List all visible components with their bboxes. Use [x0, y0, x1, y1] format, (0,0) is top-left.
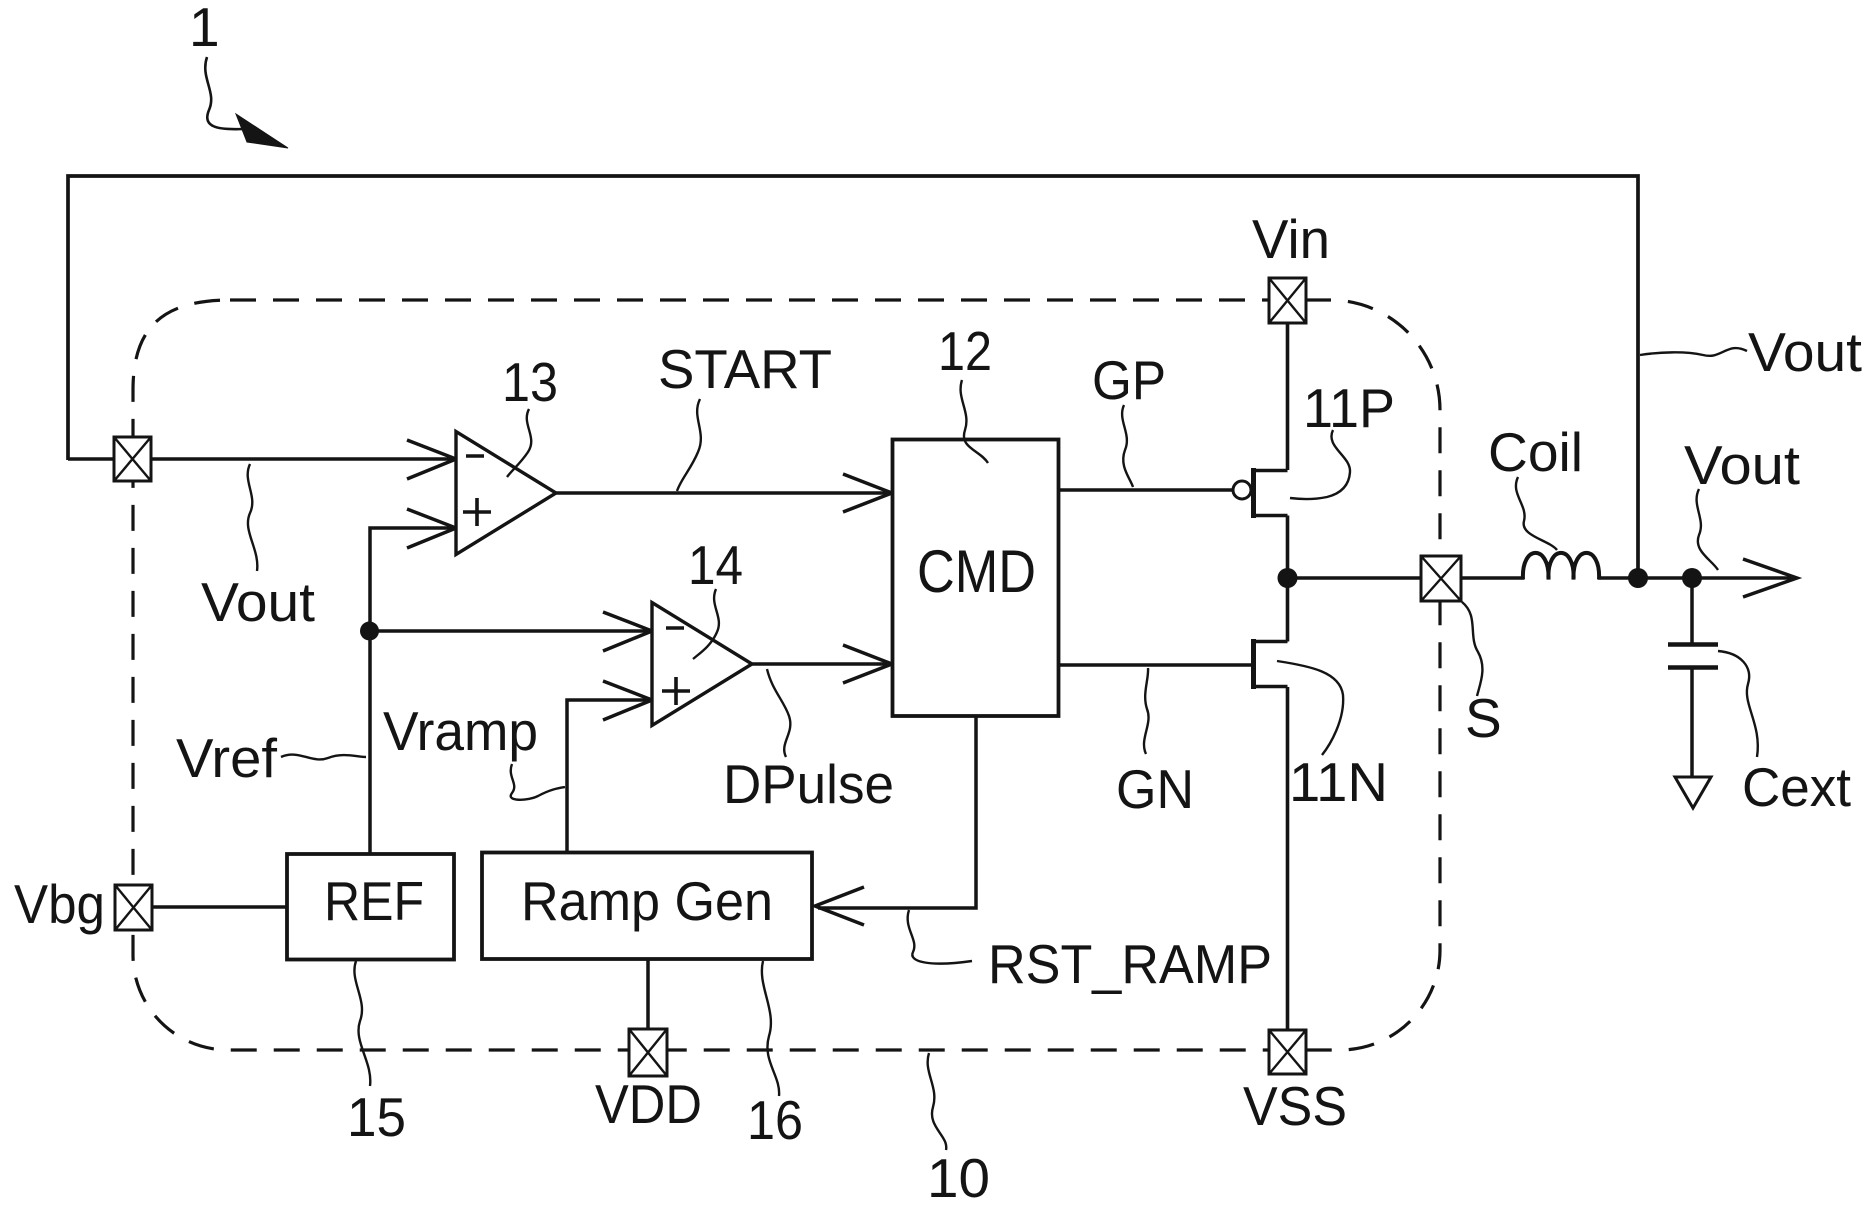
arrow into comparator 14 plus input: [603, 681, 652, 720]
wire START comparator 13 output to CMD: [556, 491, 890, 495]
svg-text:11P: 11P: [1303, 377, 1395, 439]
node dot Vout feedback tap: [1628, 568, 1648, 588]
leader DPulse: [767, 669, 790, 757]
svg-text:Ramp Gen: Ramp Gen: [521, 870, 773, 932]
transistor 11P (PMOS) channel bar: [1251, 468, 1256, 518]
wire Vbg to REF: [152, 905, 287, 909]
wire Vout feedback to comparator 13 minus input: [68, 457, 453, 461]
block Ramp Gen (16): [482, 853, 812, 960]
svg-text:15: 15: [347, 1086, 406, 1148]
comparator 13 plus sign: [463, 498, 491, 526]
node dot switching node S: [1278, 568, 1298, 588]
svg-text:Vout: Vout: [1684, 434, 1800, 496]
wire RST_RAMP CMD bottom to Ramp Gen: [818, 716, 976, 908]
svg-text:START: START: [658, 338, 832, 400]
transistor 11N (NMOS) channel bar: [1251, 639, 1256, 689]
wire PMOS drain to switching node: [1286, 516, 1290, 579]
arrow into comparator 13 minus input: [407, 440, 456, 479]
wire GP CMD to PMOS gate: [1059, 488, 1232, 492]
capacitor Cext plates: [1668, 645, 1718, 668]
leader RST_RAMP: [908, 910, 972, 964]
arrow RST_RAMP into Ramp Gen: [815, 887, 864, 925]
leader Vout left: [248, 464, 258, 571]
terminal VDD: [629, 1029, 667, 1076]
transistor 11N source/drain stubs: [1254, 642, 1288, 687]
leader 14: [693, 589, 719, 659]
leader Vout mid right: [1697, 489, 1718, 570]
svg-text:VDD: VDD: [595, 1073, 702, 1135]
node dot Vref branch: [360, 622, 379, 641]
svg-text:GP: GP: [1092, 349, 1166, 411]
svg-text:Vref: Vref: [176, 727, 278, 789]
wire Vout feedback outer loop: [68, 176, 1638, 578]
leader Vout top right: [1640, 348, 1747, 356]
wire node to comparator 14 minus input: [369, 629, 650, 633]
transistor 11P source/drain stubs: [1254, 471, 1288, 516]
block REF (15): [287, 854, 454, 960]
comparator U13 triangle: [456, 432, 556, 555]
comparator 14 plus sign: [662, 677, 690, 705]
svg-text:Coil: Coil: [1488, 421, 1583, 483]
wire GN CMD to NMOS gate: [1059, 663, 1251, 667]
comparator U14 triangle: [652, 603, 752, 726]
arrow Vout output: [1743, 559, 1797, 597]
terminal VSS: [1269, 1030, 1306, 1074]
arrow into comparator 14 minus input: [603, 612, 652, 651]
comparator 13 minus sign: [466, 454, 484, 458]
comparator 14 minus sign: [666, 626, 684, 630]
wire Vramp vertical and comparator 14 plus input: [567, 700, 652, 853]
leader Vramp: [511, 764, 565, 800]
svg-text:12: 12: [938, 320, 992, 382]
block CMD (12): [893, 440, 1059, 717]
terminal S: [1421, 556, 1461, 601]
leader 16: [762, 961, 779, 1096]
svg-text:10: 10: [927, 1147, 990, 1205]
leader 11N: [1277, 661, 1343, 755]
leader Vref: [281, 755, 366, 760]
svg-text:CMD: CMD: [917, 538, 1036, 605]
terminal Vbg: [115, 885, 152, 930]
wire coil to output with Vout arrow: [1598, 576, 1794, 580]
svg-text:16: 16: [747, 1089, 803, 1151]
wire output node down to capacitor Cext: [1690, 578, 1694, 644]
svg-text:VSS: VSS: [1243, 1075, 1347, 1137]
transistor 11P gate bubble: [1233, 481, 1251, 499]
svg-text:14: 14: [688, 534, 743, 596]
svg-text:Vramp: Vramp: [383, 700, 538, 762]
svg-text:Vin: Vin: [1252, 208, 1330, 270]
svg-text:RST_RAMP: RST_RAMP: [988, 933, 1272, 995]
leader S: [1462, 602, 1482, 696]
leader START: [677, 399, 701, 491]
wire Vin terminal down to PMOS source: [1286, 323, 1290, 470]
svg-text:S: S: [1465, 687, 1502, 749]
svg-text:Vout: Vout: [201, 571, 315, 633]
ground symbol: [1675, 777, 1711, 808]
leader arrow for reference 1: [205, 57, 243, 129]
svg-text:DPulse: DPulse: [723, 753, 894, 815]
leader Coil: [1516, 477, 1557, 550]
wire Vref vertical and comparator 13 plus input: [370, 528, 456, 854]
wire NMOS drain to switching node: [1286, 578, 1290, 642]
wire S terminal to coil: [1461, 576, 1524, 580]
svg-text:Vbg: Vbg: [14, 873, 105, 935]
svg-text:11N: 11N: [1289, 751, 1388, 813]
arrow START into CMD: [843, 474, 892, 512]
leader 13: [507, 409, 531, 477]
svg-text:Vout: Vout: [1748, 321, 1862, 383]
svg-text:Cext: Cext: [1742, 756, 1851, 818]
leader 15: [354, 961, 370, 1086]
svg-text:REF: REF: [324, 870, 424, 932]
node dot capacitor tap: [1682, 568, 1702, 588]
wire capacitor Cext to ground: [1690, 667, 1694, 777]
wire NMOS source down to VSS terminal: [1286, 687, 1290, 1030]
wire switching node to S terminal: [1288, 576, 1422, 580]
terminal Vin: [1269, 278, 1306, 323]
leader 11P: [1290, 430, 1350, 499]
inductor Coil: [1523, 553, 1599, 580]
leader 12: [961, 380, 988, 463]
wire Ramp Gen to VDD terminal: [646, 959, 650, 1029]
svg-text:1: 1: [189, 0, 220, 58]
wire DPulse comparator 14 output to CMD: [752, 662, 890, 666]
arrow DPulse into CMD: [843, 645, 892, 683]
chip boundary dashed outline (block 10): [133, 300, 1440, 1050]
terminal Vout (left): [114, 437, 151, 481]
leader Cext: [1718, 651, 1758, 757]
svg-text:13: 13: [502, 351, 558, 413]
leader GN: [1144, 668, 1149, 754]
arrow into comparator 13 plus input: [407, 509, 456, 548]
svg-text:GN: GN: [1116, 758, 1194, 820]
leader GP: [1122, 405, 1133, 487]
leader 10: [928, 1053, 947, 1150]
